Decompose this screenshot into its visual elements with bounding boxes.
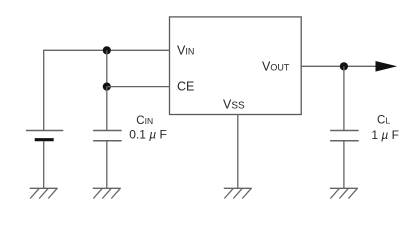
wire battery to ground <box>43 141 45 188</box>
capacitor CL <box>330 131 359 141</box>
wire VIN node down to CE node <box>106 50 108 86</box>
IC regulator box U1 <box>170 17 302 115</box>
svg-text:0.1 µ F: 0.1 µ F <box>129 128 167 142</box>
node VIN junction <box>103 46 111 54</box>
svg-text:1 µ F: 1 µ F <box>371 128 399 142</box>
battery BT1 <box>26 131 63 140</box>
ground (CIN) <box>93 188 121 198</box>
node VOUT junction <box>340 62 348 70</box>
svg-text:CE: CE <box>177 80 194 94</box>
ground (VSS) <box>224 188 252 198</box>
wire VOUT pin to arrow <box>301 65 376 67</box>
wire CIN to ground <box>106 141 108 189</box>
wire VOUT node down to CL <box>343 66 345 130</box>
wire CE node down to CIN <box>106 87 108 131</box>
wire CE node to CE pin <box>107 86 170 88</box>
wire battery top to VIN pin <box>44 50 170 130</box>
arrow output <box>376 61 398 72</box>
wire VSS pin to ground <box>237 115 239 189</box>
svg-text:VOUT: VOUT <box>262 59 290 73</box>
svg-text:CIN: CIN <box>136 115 153 127</box>
svg-text:VIN: VIN <box>177 44 194 58</box>
svg-text:VSS: VSS <box>223 98 245 112</box>
ground (battery) <box>30 188 58 198</box>
node CE junction <box>103 83 111 91</box>
ground (CL) <box>330 188 358 198</box>
wire CL to ground <box>343 141 345 189</box>
capacitor CIN <box>93 131 122 141</box>
svg-text:CL: CL <box>377 115 390 127</box>
